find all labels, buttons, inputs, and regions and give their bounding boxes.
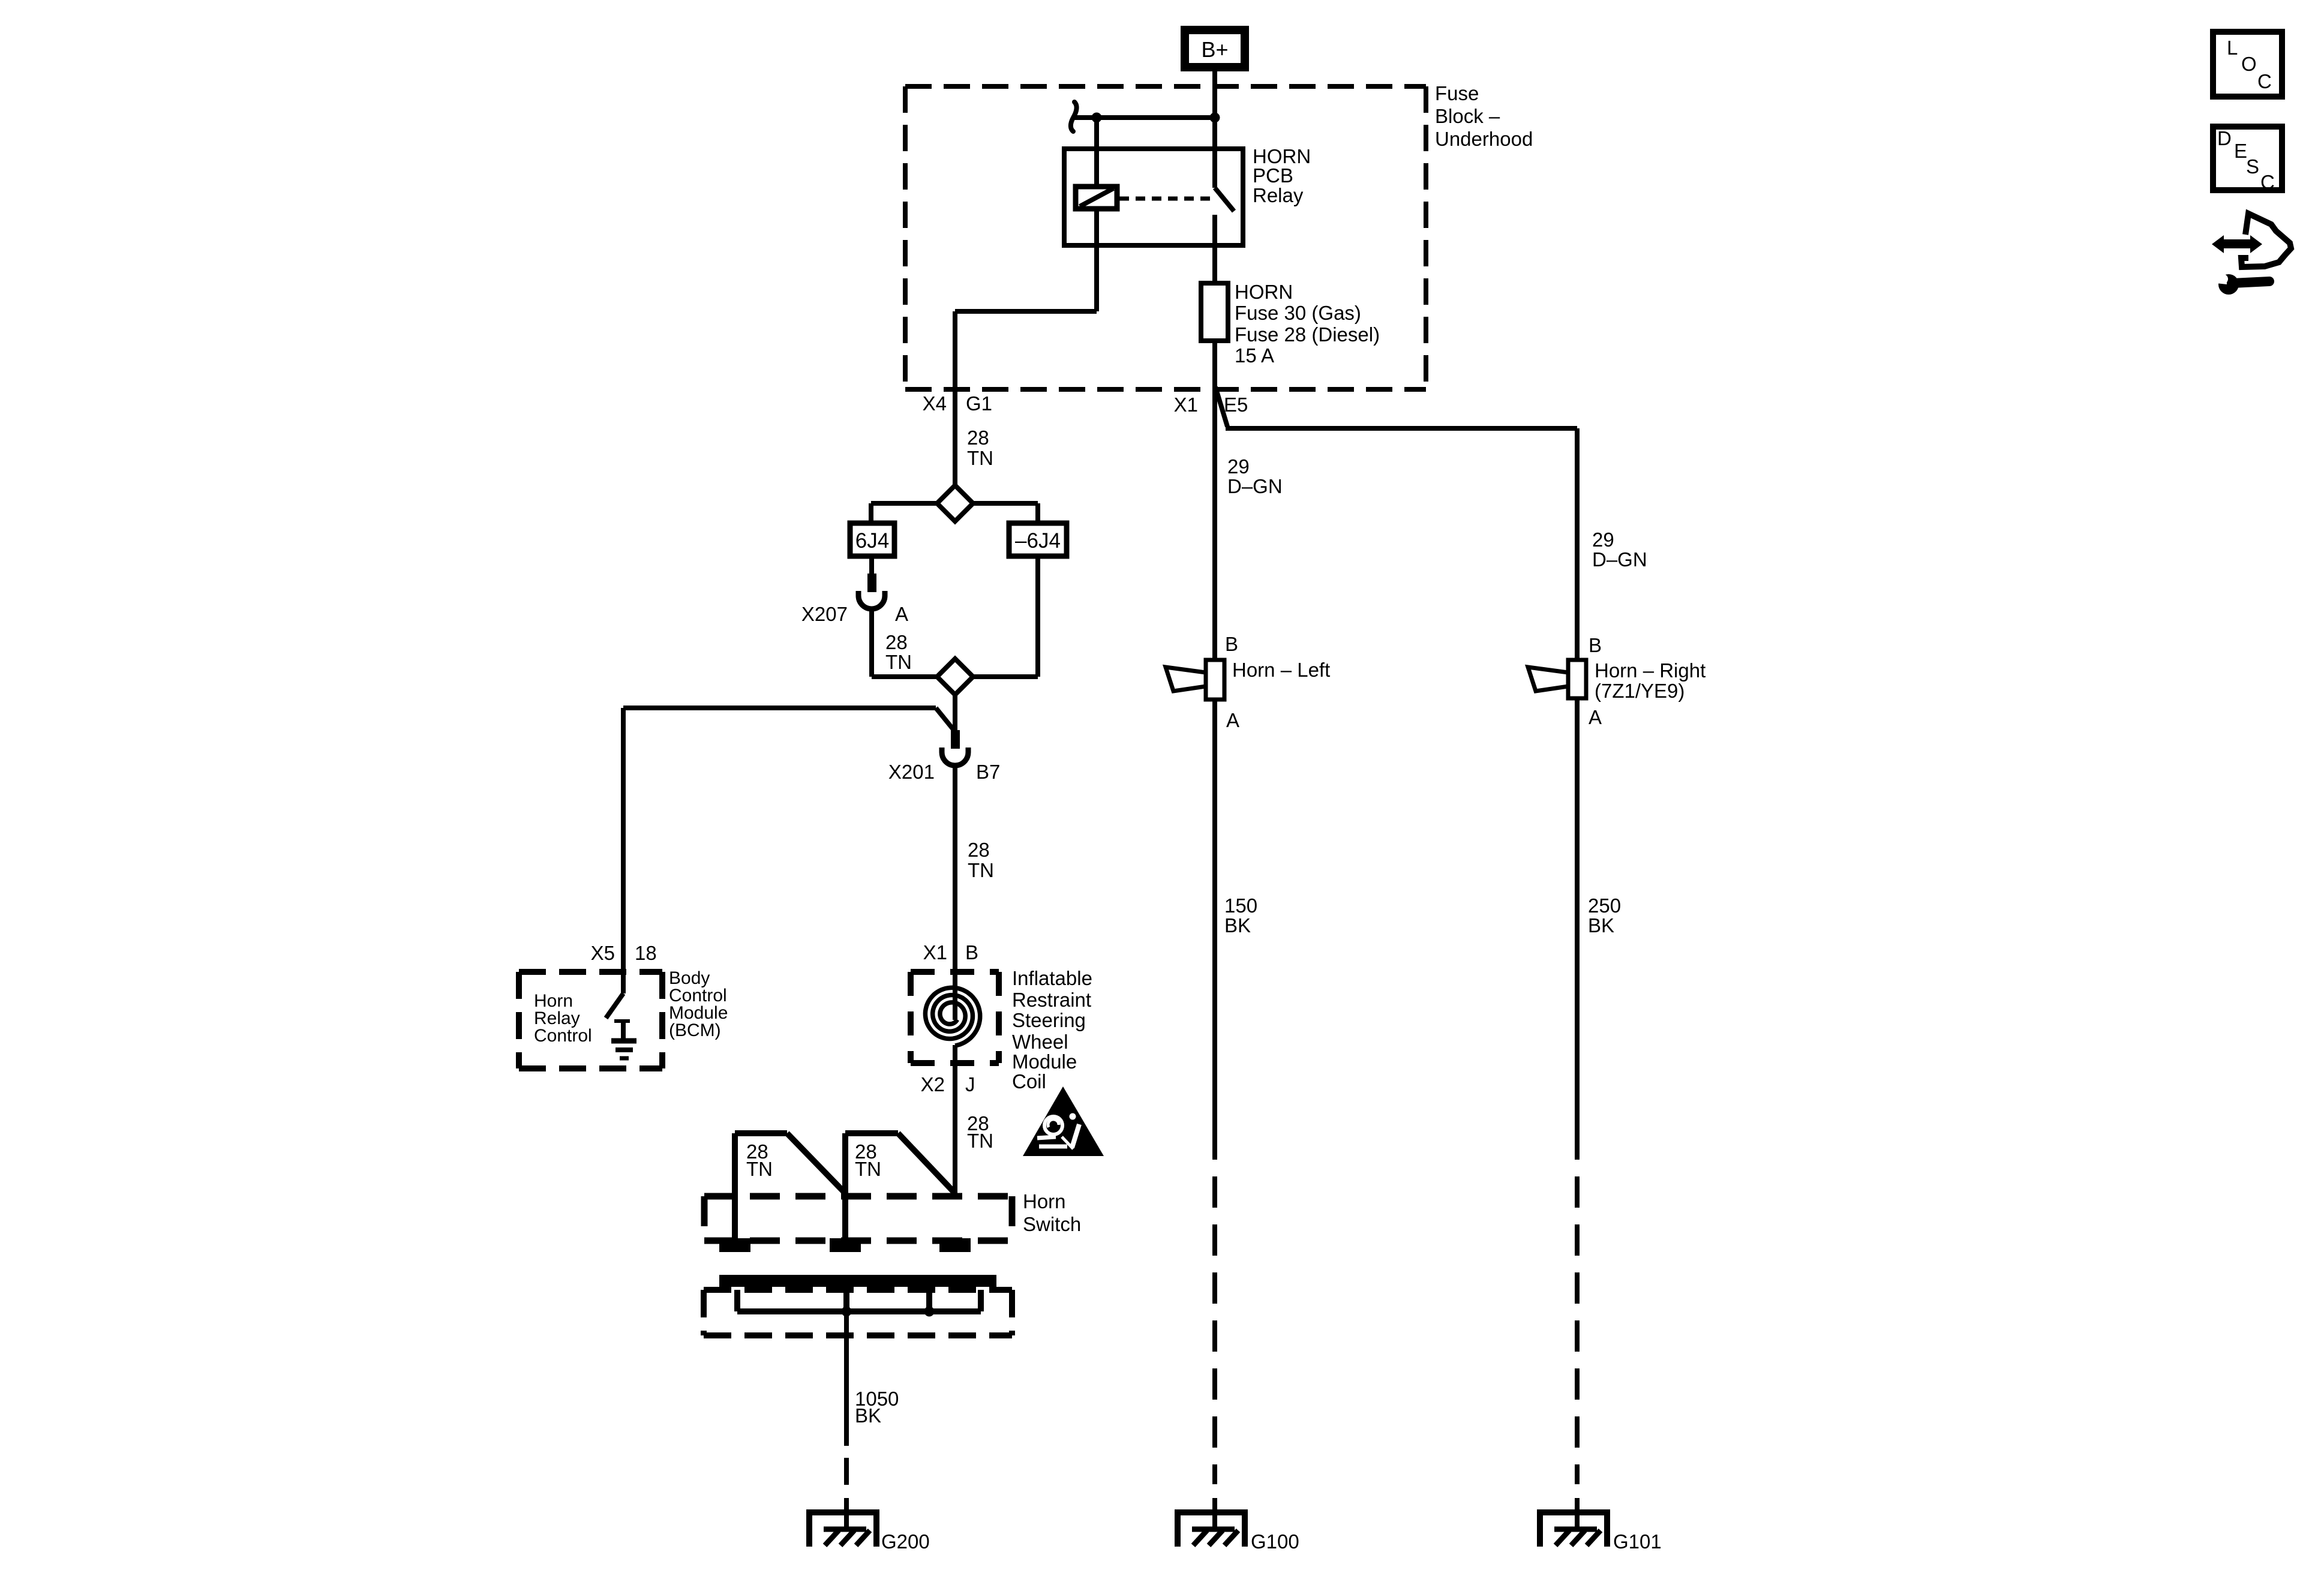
- svg-text:A: A: [895, 603, 908, 625]
- svg-text:15 A: 15 A: [1235, 344, 1274, 367]
- svg-text:E: E: [2234, 140, 2247, 162]
- svg-text:TN: TN: [967, 447, 993, 469]
- svg-text:X207: X207: [801, 603, 848, 625]
- svg-text:Fuse: Fuse: [1435, 82, 1479, 104]
- svg-text:D–GN: D–GN: [1227, 475, 1283, 497]
- svg-text:Restraint: Restraint: [1012, 989, 1091, 1011]
- svg-text:TN: TN: [746, 1158, 773, 1180]
- svg-text:G200: G200: [881, 1530, 930, 1553]
- svg-text:O: O: [2241, 53, 2257, 75]
- svg-text:G1: G1: [966, 392, 992, 415]
- svg-text:Inflatable: Inflatable: [1012, 967, 1092, 989]
- svg-text:B: B: [965, 941, 978, 963]
- svg-text:Relay: Relay: [1253, 184, 1304, 206]
- svg-text:29: 29: [1592, 529, 1614, 551]
- svg-text:TN: TN: [885, 651, 912, 673]
- svg-text:Switch: Switch: [1023, 1213, 1081, 1235]
- svg-text:Horn – Right: Horn – Right: [1595, 659, 1706, 682]
- svg-text:Control: Control: [534, 1026, 592, 1046]
- svg-text:TN: TN: [967, 1130, 993, 1152]
- svg-text:28: 28: [967, 427, 989, 449]
- svg-text:Block –: Block –: [1435, 105, 1500, 127]
- svg-text:C: C: [2257, 70, 2272, 92]
- svg-text:28: 28: [968, 839, 990, 861]
- svg-text:(7Z1/YE9): (7Z1/YE9): [1595, 680, 1685, 702]
- svg-text:Fuse 30 (Gas): Fuse 30 (Gas): [1235, 302, 1361, 324]
- svg-text:B7: B7: [976, 761, 1000, 783]
- svg-text:HORN: HORN: [1235, 281, 1293, 303]
- svg-text:X2: X2: [921, 1073, 945, 1095]
- svg-text:S: S: [2246, 155, 2259, 178]
- svg-text:B: B: [1225, 633, 1238, 655]
- svg-text:Horn – Left: Horn – Left: [1232, 659, 1330, 681]
- svg-text:X201: X201: [888, 761, 935, 783]
- svg-text:B+: B+: [1201, 37, 1228, 62]
- svg-text:TN: TN: [855, 1158, 881, 1180]
- svg-text:X5: X5: [591, 942, 615, 964]
- svg-text:BK: BK: [855, 1404, 881, 1427]
- svg-text:BK: BK: [1224, 914, 1251, 936]
- svg-text:Fuse 28 (Diesel): Fuse 28 (Diesel): [1235, 323, 1380, 346]
- svg-text:Horn: Horn: [1023, 1190, 1066, 1212]
- svg-text:B: B: [1589, 634, 1602, 656]
- svg-text:6J4: 6J4: [855, 529, 889, 553]
- svg-text:BK: BK: [1588, 914, 1614, 936]
- svg-text:E5: E5: [1224, 394, 1248, 416]
- svg-text:250: 250: [1588, 894, 1621, 917]
- svg-text:C: C: [2260, 171, 2275, 193]
- svg-text:J: J: [965, 1073, 975, 1095]
- svg-text:A: A: [1226, 709, 1239, 731]
- svg-text:TN: TN: [968, 859, 994, 881]
- svg-text:Steering: Steering: [1012, 1009, 1086, 1031]
- svg-text:29: 29: [1227, 455, 1250, 478]
- svg-text:X1: X1: [1174, 394, 1198, 416]
- svg-text:X4: X4: [923, 392, 947, 415]
- svg-text:G101: G101: [1613, 1530, 1662, 1553]
- svg-text:Module: Module: [1012, 1050, 1077, 1073]
- svg-text:A: A: [1589, 706, 1602, 728]
- svg-text:X1: X1: [923, 941, 947, 963]
- svg-text:(BCM): (BCM): [669, 1020, 721, 1040]
- svg-text:150: 150: [1224, 894, 1257, 917]
- svg-text:18: 18: [635, 942, 657, 964]
- svg-text:28: 28: [885, 631, 908, 653]
- svg-text:Wheel: Wheel: [1012, 1031, 1068, 1053]
- svg-text:L: L: [2227, 37, 2238, 59]
- svg-text:Underhood: Underhood: [1435, 128, 1533, 150]
- svg-text:G100: G100: [1251, 1530, 1299, 1553]
- svg-text:–6J4: –6J4: [1015, 529, 1061, 553]
- svg-text:D–GN: D–GN: [1592, 548, 1647, 571]
- svg-text:PCB: PCB: [1253, 164, 1293, 187]
- svg-text:D: D: [2217, 127, 2232, 149]
- svg-text:Coil: Coil: [1012, 1070, 1046, 1092]
